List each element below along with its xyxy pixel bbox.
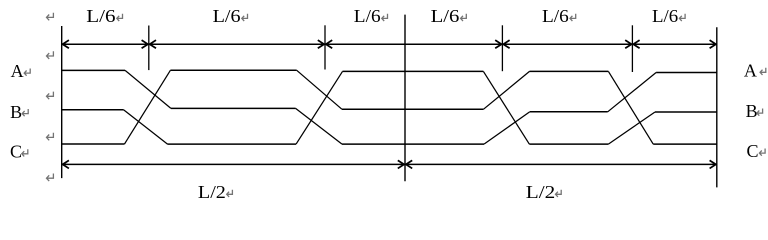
- empty paragraph mark 2 in left margin: [46, 51, 53, 59]
- transposition 3 diagonal top-to-bottom: [483, 71, 529, 144]
- svg-text:L/6: L/6: [652, 6, 678, 26]
- section tick 2: [324, 25, 326, 69]
- svg-text:L/6: L/6: [354, 6, 381, 26]
- dimension arrow span 1 (L/6): [62, 40, 148, 48]
- paragraph mark after L/6 number 2: [241, 14, 247, 21]
- svg-text:C: C: [10, 142, 22, 162]
- paragraph mark after left L/2: [226, 190, 232, 197]
- paragraph mark after L/6 number 4: [460, 14, 466, 21]
- svg-text:L/2: L/2: [526, 182, 556, 202]
- conductor C segment 2: [168, 143, 297, 145]
- paragraph mark after L/6 number 3: [381, 14, 387, 21]
- conductor B segment 1: [62, 109, 124, 111]
- svg-text:L/6: L/6: [213, 6, 241, 26]
- paragraph mark after left A: [24, 69, 30, 76]
- section tick 1: [148, 26, 150, 71]
- paragraph mark after right C: [759, 149, 765, 156]
- left terminal line: [61, 26, 63, 178]
- svg-text:L/6: L/6: [542, 6, 569, 26]
- conductor B segment 3: [342, 108, 483, 110]
- paragraph mark after right L/2: [555, 190, 561, 197]
- transposition 2 diagonal top-to-middle: [297, 70, 342, 109]
- dimension arrow span 4 (L/6): [503, 40, 632, 48]
- section tick 4: [631, 25, 633, 72]
- transposition 4 diagonal middle-to-top: [608, 73, 656, 112]
- paragraph mark after left C: [21, 149, 27, 156]
- transposition 2 diagonal bottom-to-top: [296, 71, 342, 144]
- transposition 4 diagonal top-to-bottom: [608, 71, 653, 144]
- svg-text:A: A: [744, 61, 757, 81]
- conductor C segment 5: [653, 143, 717, 145]
- conductor A segment 1: [62, 69, 125, 71]
- dimension arrow left half (L/2): [62, 160, 404, 168]
- mid-span section line: [404, 15, 406, 182]
- conductor A segment 2: [170, 69, 296, 71]
- paragraph mark after L/6 number 1: [116, 14, 122, 21]
- right terminal line: [716, 27, 718, 187]
- svg-text:A: A: [11, 61, 24, 81]
- svg-text:L/2: L/2: [198, 182, 226, 202]
- paragraph mark after right B: [757, 109, 763, 116]
- conductor C segment 4: [529, 143, 608, 145]
- empty paragraph mark 5 in left margin: [46, 174, 53, 182]
- paragraph mark after right A: [760, 68, 766, 75]
- empty paragraph mark 3 in left margin: [46, 92, 53, 100]
- dimension arrow span 2 (L/6): [149, 40, 324, 48]
- conductor C segment 3: [342, 143, 484, 145]
- paragraph mark after L/6 number 6: [679, 14, 685, 21]
- empty paragraph mark 4 in left margin: [46, 133, 53, 141]
- conductor A segment 4: [530, 70, 609, 72]
- conductor A segment 5: [656, 72, 717, 74]
- dimension arrow span 3 (two L/6 halves): [326, 40, 502, 48]
- section tick 3: [501, 25, 503, 71]
- dimension arrow span 5 (L/6): [633, 40, 716, 48]
- transposition 1 diagonal bottom-to-top: [125, 70, 171, 144]
- conductor B segment 4: [530, 111, 608, 113]
- transposition 1 diagonal top-to-middle: [125, 70, 171, 108]
- transposition 3 diagonal middle-to-top: [483, 71, 529, 109]
- transposition 4 diagonal bottom-to-middle: [608, 112, 655, 144]
- paragraph mark after L/6 number 5: [570, 14, 576, 21]
- svg-text:B: B: [10, 102, 22, 122]
- transposition 3 diagonal bottom-to-middle: [484, 112, 530, 144]
- svg-text:L/6: L/6: [86, 6, 115, 26]
- svg-text:L/6: L/6: [431, 6, 460, 26]
- dimension arrow right half (L/2): [406, 160, 717, 168]
- conductor B segment 5: [655, 111, 717, 113]
- transposition 2 diagonal middle-to-bottom: [296, 108, 342, 144]
- empty paragraph mark 1 in left margin: [46, 13, 53, 21]
- svg-text:C: C: [747, 141, 759, 161]
- conductor C segment 1: [62, 143, 125, 145]
- paragraph mark after left B: [22, 109, 28, 116]
- transposition 1 diagonal middle-to-bottom: [124, 110, 168, 144]
- conductor B segment 2: [171, 107, 296, 109]
- conductor A segment 3: [343, 70, 484, 72]
- svg-text:B: B: [746, 101, 758, 121]
